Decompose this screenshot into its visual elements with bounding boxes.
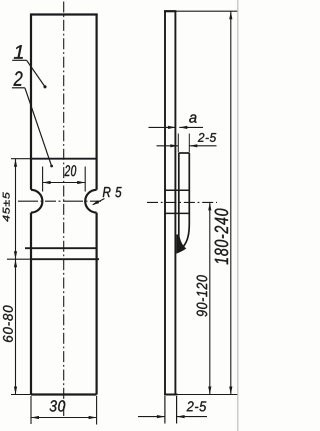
dimension 2-5 upper arrow right — [189, 144, 197, 147]
label 1 underline — [12, 59, 26, 61]
dimension 20 extension line right — [84, 167, 86, 192]
plate right edge with curved end — [181, 153, 190, 249]
specimen bar right edge upper — [95, 14, 97, 190]
horizontal centerline (side view) — [147, 201, 217, 203]
side view bar bottom edge — [164, 394, 178, 396]
dimension text 2-5 bottom — [187, 401, 207, 411]
dimension 30 extension right — [96, 396, 98, 425]
notch projection line lower (side view) — [165, 212, 189, 214]
dimension 90-120 arrow top — [208, 202, 211, 210]
specimen bar bottom edge — [31, 393, 97, 395]
dimension text 2-5 upper — [198, 133, 216, 142]
dimension 2-5 upper extension right — [188, 134, 190, 153]
bottom edge left extension — [11, 394, 31, 396]
bottom extension line to dimensions — [178, 394, 238, 396]
weld line lower left extension — [7, 258, 31, 260]
notch left semicircle R5 — [31, 190, 42, 213]
label 2 leader dot — [50, 165, 53, 168]
dimension 180-240 arrow bottom — [229, 387, 232, 395]
dimension 45±5 line — [15, 159, 17, 260]
dimension 2-5 bottom arrow left — [157, 415, 165, 418]
label 1 leader dot — [44, 85, 47, 88]
label 2 text — [14, 71, 23, 85]
specimen bar outline (front view) top edge — [30, 13, 98, 15]
dimension 30 extension left — [30, 396, 32, 424]
dimension 90-120 arrow bottom — [208, 387, 211, 395]
dimension 20 arrow right — [77, 181, 85, 184]
dimension text a — [189, 114, 196, 122]
label 1 leader — [27, 60, 45, 86]
specimen bar right edge lower — [95, 213, 97, 395]
dimension 180-240 arrow top — [229, 11, 232, 19]
dimension 20 extension line left — [42, 167, 44, 192]
weld line upper (front view) — [25, 247, 97, 249]
scan edge artifact line — [237, 0, 239, 431]
dimension text 90-120 — [197, 275, 208, 316]
R5 leader arrow — [93, 199, 105, 205]
vertical centerline (front view) — [63, 2, 65, 417]
weld line lower (front view) — [31, 258, 99, 260]
dimension 30 arrow left — [31, 416, 39, 419]
top extension line to 180-240 dimension — [176, 10, 238, 12]
side view bar top edge — [164, 10, 176, 12]
dimension 90-120 line — [209, 202, 211, 394]
dimension 20 line — [43, 182, 86, 184]
plate top edge line (front view) — [31, 158, 97, 160]
dimension text R 5 — [103, 187, 122, 197]
dimension text 60-80 — [3, 306, 13, 343]
dimension text 20 — [65, 165, 77, 176]
dimension 180-240 line — [230, 11, 232, 394]
dimension 2-5 bottom left segment — [138, 416, 165, 418]
dimension a arrow right — [179, 126, 187, 129]
dimension a right segment — [179, 126, 203, 128]
specimen bar left edge upper — [30, 14, 32, 190]
braze fillet (solid) — [176, 234, 186, 253]
dimension a arrow left — [168, 126, 176, 129]
plate left edge — [178, 153, 180, 238]
plate top edge left extension — [11, 158, 31, 160]
dimension 45±5 arrow top — [14, 159, 17, 167]
dimension 20 arrow left — [43, 181, 51, 184]
dimension 2-5 upper left segment — [157, 145, 179, 147]
label 2 underline — [12, 87, 25, 89]
dimension 30 line — [31, 417, 97, 419]
dimension 60-80 arrow top — [14, 259, 17, 267]
dimension 2-5 bottom extension right — [176, 396, 178, 424]
dimension 2-5 bottom extension left — [164, 396, 166, 424]
side view bar left edge — [164, 12, 166, 395]
dimension 2-5 upper right segment — [189, 145, 216, 147]
dimension text 180-240 — [215, 209, 229, 265]
dimension 2-5 bottom arrow right — [177, 415, 185, 418]
dimension a left segment — [149, 126, 176, 128]
dimension text 45±5 — [3, 192, 10, 222]
plate (side view) top edge — [179, 152, 190, 154]
side view bar right edge — [174, 12, 176, 395]
dimension 2-5 upper arrow left — [170, 144, 178, 147]
dimension 60-80 arrow bottom — [14, 387, 17, 395]
dimension 45±5 arrow bottom — [14, 251, 17, 259]
notch projection line upper (side view) — [165, 189, 189, 191]
dimension 2-5 bottom right segment — [177, 416, 207, 418]
horizontal centerline through notch (front view) — [18, 200, 102, 202]
dimension 60-80 line — [15, 259, 17, 394]
label 1 text — [14, 45, 23, 58]
dimension 30 arrow right — [89, 416, 97, 419]
dimension text 30 — [50, 400, 66, 411]
notch right semicircle R5 — [85, 190, 96, 213]
dimension 2-5 upper extension left — [177, 134, 179, 153]
label 2 leader — [25, 88, 52, 166]
specimen bar left edge lower — [30, 213, 32, 395]
